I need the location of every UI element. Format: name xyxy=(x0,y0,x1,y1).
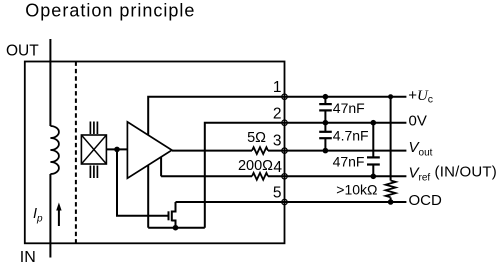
resistor 5 ohm xyxy=(252,147,268,154)
junction hall output node xyxy=(114,147,120,153)
wire Q1 source to 0V rail xyxy=(172,221,176,228)
junction Q1 source node xyxy=(173,225,179,231)
transistor Q1 channel bar xyxy=(171,211,173,222)
wire primary conductor bottom (IN) xyxy=(49,174,51,258)
capacitor C2 4.7nF lead xyxy=(324,123,326,132)
svg-text:Operation principle: Operation principle xyxy=(25,0,195,20)
svg-text:IN: IN xyxy=(20,249,36,266)
wire hall node to mosfet gate xyxy=(117,149,169,215)
wire pin4 (Vref) left of resistor xyxy=(161,175,252,177)
isolation barrier (dashed) xyxy=(75,62,77,244)
magnetic core hatching top xyxy=(89,122,91,135)
svg-text:0V: 0V xyxy=(409,113,427,130)
svg-text:4: 4 xyxy=(273,159,282,176)
junction R1 top on +Uc xyxy=(388,94,393,99)
junction C2 bottom on Vout xyxy=(323,148,329,154)
wire pin1 (+Uc) xyxy=(148,97,406,135)
svg-text:5: 5 xyxy=(273,185,282,202)
svg-text:OCD: OCD xyxy=(409,192,443,209)
wire Q1 drain to pin5 xyxy=(172,202,176,212)
capacitor C1 plates xyxy=(319,103,332,105)
wire amp bottom to 0V rail xyxy=(147,165,149,227)
svg-text:2: 2 xyxy=(273,105,282,122)
resistor R1 >10k lead xyxy=(390,97,392,181)
capacitor C3 plates xyxy=(367,156,380,158)
junction C1 top xyxy=(323,94,329,100)
primary coil Lp xyxy=(50,126,59,174)
wire pin2 (0V) xyxy=(205,123,407,228)
primary current arrow xyxy=(58,208,60,226)
wire amp feedback stub to pin4 xyxy=(160,157,162,176)
pin 5 terminal xyxy=(282,199,288,205)
transducer case box xyxy=(25,62,285,244)
svg-text:5Ω: 5Ω xyxy=(247,130,266,146)
capacitor C1 47nF lead xyxy=(324,97,326,104)
capacitor C3 47nF lead xyxy=(372,123,374,158)
pin 4 terminal xyxy=(282,174,288,180)
junction C3 top on 0V xyxy=(371,120,377,126)
Hall element xyxy=(81,135,106,164)
wire primary conductor top (OUT) xyxy=(49,39,51,126)
junction C1 bottom on 0V xyxy=(323,120,329,126)
resistor R1 lead bottom xyxy=(390,198,392,203)
resistor 200 ohm xyxy=(252,173,268,180)
svg-text:1: 1 xyxy=(273,79,282,96)
svg-text:47nF: 47nF xyxy=(333,100,365,116)
wire pin4 (Vref) right of resistor xyxy=(268,175,406,177)
svg-text:OUT: OUT xyxy=(6,43,39,60)
pin 2 terminal xyxy=(282,120,288,126)
junction C3 bottom on Vref xyxy=(371,174,377,180)
capacitor C2 plates xyxy=(319,131,332,133)
resistor R1 zigzag xyxy=(386,181,396,198)
svg-text:>10kΩ: >10kΩ xyxy=(336,182,377,198)
wire 0V bottom rail xyxy=(148,227,205,229)
transistor Q1 (OCD mosfet) gate bar xyxy=(168,211,170,220)
wire pin5 (OCD) xyxy=(176,201,407,203)
svg-text:47nF: 47nF xyxy=(333,154,365,170)
op-amp A1 xyxy=(127,122,171,178)
junction R1 bottom on OCD xyxy=(388,199,394,205)
wire pin3 (Vout) right of resistor xyxy=(268,150,406,152)
svg-text:200Ω: 200Ω xyxy=(238,158,273,174)
magnetic core hatching bottom xyxy=(89,166,91,179)
svg-text:4.7nF: 4.7nF xyxy=(333,127,369,143)
svg-text:3: 3 xyxy=(273,132,282,149)
pin 1 terminal xyxy=(282,94,288,100)
wire hall to amplifier xyxy=(106,148,127,150)
pin 3 terminal xyxy=(282,148,288,154)
wire pin3 (Vout) left of resistor xyxy=(172,150,252,152)
